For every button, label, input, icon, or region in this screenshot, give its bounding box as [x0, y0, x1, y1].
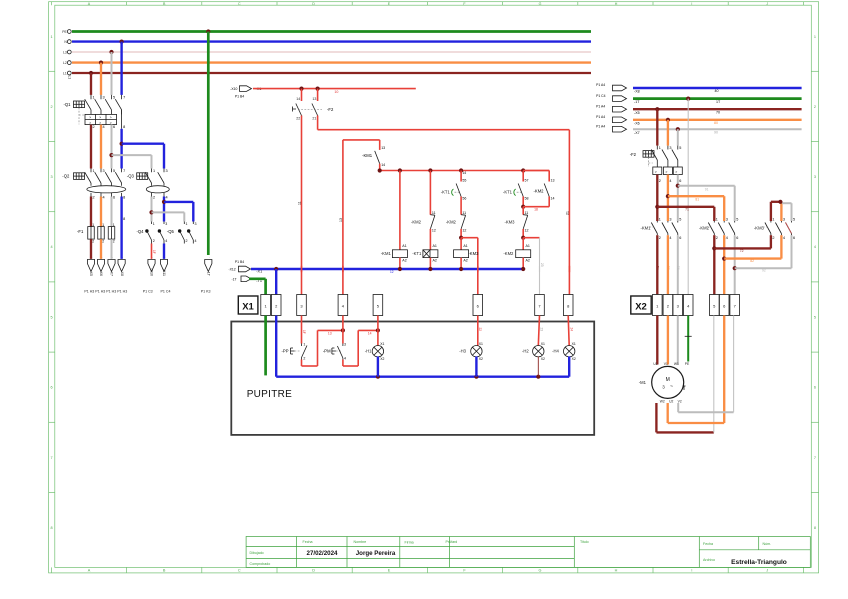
- svg-text:-X8: -X8: [634, 90, 640, 94]
- svg-text:P1 C4: P1 C4: [596, 94, 606, 98]
- svg-text:·: ·: [152, 256, 153, 260]
- svg-text:2: 2: [716, 236, 718, 240]
- svg-text:4: 4: [166, 196, 168, 200]
- svg-text:-KM3: -KM3: [504, 220, 515, 225]
- svg-text:G: G: [539, 569, 542, 573]
- svg-text:L3: L3: [63, 50, 67, 54]
- svg-text:55: 55: [462, 178, 466, 182]
- svg-text:1: 1: [814, 35, 816, 39]
- svg-text:14: 14: [551, 197, 555, 201]
- svg-text:X2: X2: [380, 357, 384, 361]
- svg-text:6: 6: [679, 179, 681, 183]
- svg-text:23: 23: [540, 263, 544, 267]
- svg-text:P1 A4: P1 A4: [596, 83, 605, 87]
- svg-text:-F1: -F1: [77, 229, 84, 234]
- svg-text:-X6: -X6: [634, 121, 640, 125]
- svg-text:>: >: [99, 116, 101, 120]
- svg-text:-H4: -H4: [552, 349, 559, 354]
- svg-text:-F2: -F2: [327, 107, 334, 112]
- svg-text:-Q4: -Q4: [137, 229, 145, 234]
- svg-text:A2: A2: [463, 258, 467, 262]
- svg-text:B: B: [163, 569, 166, 573]
- svg-text:Firma: Firma: [405, 541, 414, 545]
- svg-text:2: 2: [153, 196, 155, 200]
- svg-text:7: 7: [51, 456, 53, 460]
- svg-text:-KM2: -KM2: [534, 188, 545, 193]
- svg-text:-KT1: -KT1: [503, 189, 513, 194]
- svg-text:D: D: [312, 569, 315, 573]
- svg-text:1F: 1F: [152, 250, 156, 254]
- svg-text:-1T: -1T: [634, 100, 640, 104]
- svg-text:6: 6: [793, 236, 795, 240]
- svg-text:1: 1: [153, 222, 155, 226]
- svg-text:1: 1: [113, 223, 115, 227]
- svg-text:72: 72: [740, 249, 744, 253]
- svg-text:2: 2: [93, 196, 95, 200]
- svg-text:7: 7: [123, 169, 125, 173]
- svg-text:80: 80: [714, 121, 718, 125]
- svg-text:14: 14: [381, 163, 385, 167]
- svg-text:A: A: [88, 569, 91, 573]
- svg-text:Jorge Pereira: Jorge Pereira: [356, 550, 396, 557]
- svg-text:11: 11: [525, 211, 529, 215]
- svg-text:1: 1: [51, 35, 53, 39]
- svg-text:21: 21: [566, 211, 570, 215]
- svg-text:P1 A4: P1 A4: [596, 124, 605, 128]
- svg-text:2: 2: [113, 240, 115, 244]
- svg-text:56: 56: [462, 197, 466, 201]
- svg-text:X1: X1: [380, 342, 384, 346]
- svg-text:P1 A4: P1 A4: [596, 115, 605, 119]
- svg-text:Comprobado: Comprobado: [250, 562, 271, 566]
- svg-text:6: 6: [736, 236, 738, 240]
- svg-text:23: 23: [540, 328, 544, 332]
- svg-text:-KM3: -KM3: [754, 226, 765, 231]
- svg-text:2: 2: [186, 239, 188, 243]
- svg-text:D: D: [312, 2, 315, 6]
- svg-text:V1: V1: [664, 362, 668, 366]
- svg-text:1: 1: [659, 146, 661, 150]
- svg-text:V2: V2: [678, 399, 682, 403]
- svg-text:>: >: [110, 121, 112, 125]
- svg-text:P1 B4: P1 B4: [235, 94, 244, 98]
- svg-text:2: 2: [51, 105, 53, 109]
- svg-text:X1: X1: [572, 342, 576, 346]
- svg-text:>: >: [110, 116, 112, 120]
- svg-text:8: 8: [814, 526, 816, 530]
- svg-text:2: 2: [659, 179, 661, 183]
- svg-text:-X5: -X5: [634, 111, 640, 115]
- svg-text:13: 13: [312, 97, 316, 101]
- svg-text:A2: A2: [402, 258, 406, 262]
- svg-text:-KM1: -KM1: [640, 226, 651, 231]
- svg-text:-KM1: -KM1: [362, 153, 373, 158]
- svg-text:Nombre: Nombre: [354, 540, 367, 544]
- svg-text:I: I: [691, 569, 692, 573]
- svg-text:>: >: [665, 170, 667, 174]
- svg-text:5: 5: [736, 217, 738, 221]
- svg-text:11: 11: [298, 201, 302, 205]
- svg-text:1F: 1F: [302, 330, 306, 334]
- svg-text:·: ·: [102, 256, 103, 260]
- svg-text:3: 3: [669, 217, 671, 221]
- svg-text:3: 3: [814, 175, 816, 179]
- svg-text:4: 4: [726, 236, 728, 240]
- svg-text:·: ·: [209, 256, 210, 260]
- svg-text:5: 5: [51, 315, 53, 319]
- svg-text:L1: L1: [68, 76, 72, 80]
- svg-text:-H2: -H2: [522, 349, 529, 354]
- svg-text:14: 14: [462, 171, 466, 175]
- svg-text:-Q2: -Q2: [62, 174, 70, 179]
- svg-text:Dibujado: Dibujado: [250, 551, 264, 555]
- svg-text:3: 3: [783, 217, 785, 221]
- svg-text:2: 2: [92, 240, 94, 244]
- svg-text:J: J: [766, 569, 768, 573]
- svg-text:A2: A2: [433, 258, 437, 262]
- svg-text:14: 14: [368, 332, 372, 336]
- svg-text:P1 H3 P1 H3 P1 H3 P1 H3: P1 H3 P1 H3 P1 H3 P1 H3: [84, 289, 127, 293]
- svg-text:13: 13: [339, 218, 343, 222]
- svg-text:1: 1: [92, 223, 94, 227]
- svg-text:3: 3: [726, 217, 728, 221]
- svg-text:13: 13: [328, 332, 332, 336]
- svg-text:91: 91: [676, 266, 680, 270]
- svg-text:G: G: [539, 2, 542, 6]
- svg-text:C: C: [238, 2, 241, 6]
- svg-text:E: E: [388, 569, 391, 573]
- svg-text:Núm.: Núm.: [763, 542, 772, 546]
- svg-text:X1: X1: [242, 302, 254, 313]
- svg-text:L1: L1: [63, 71, 67, 75]
- svg-text:X2: X2: [541, 357, 545, 361]
- svg-text:-X11: -X11: [162, 269, 166, 276]
- svg-text:12: 12: [390, 270, 394, 274]
- svg-text:1: 1: [153, 169, 155, 173]
- svg-text:-PM: -PM: [323, 348, 331, 353]
- svg-text:2: 2: [153, 239, 155, 243]
- svg-text:7: 7: [814, 456, 816, 460]
- svg-text:Archivo: Archivo: [703, 558, 715, 562]
- svg-text:4: 4: [103, 196, 105, 200]
- svg-text:40: 40: [715, 89, 719, 93]
- svg-text:4: 4: [783, 236, 785, 240]
- svg-text:6: 6: [113, 196, 115, 200]
- svg-text:6: 6: [51, 386, 53, 390]
- svg-text:J: J: [766, 2, 768, 6]
- svg-text:3: 3: [103, 169, 105, 173]
- svg-text:2: 2: [772, 236, 774, 240]
- svg-text:13: 13: [551, 178, 555, 182]
- svg-text:92: 92: [762, 269, 766, 273]
- svg-text:W2: W2: [660, 399, 665, 403]
- svg-text:P1 A4: P1 A4: [596, 104, 605, 108]
- svg-text:1: 1: [303, 342, 305, 346]
- svg-text:4: 4: [165, 239, 167, 243]
- svg-text:P1 C4: P1 C4: [161, 289, 171, 293]
- svg-text:U1: U1: [653, 362, 657, 366]
- svg-text:-X10: -X10: [230, 87, 237, 91]
- svg-text:L2: L2: [63, 61, 67, 65]
- svg-text:3: 3: [165, 222, 167, 226]
- svg-text:Fecha: Fecha: [703, 542, 713, 546]
- svg-text:5: 5: [679, 146, 681, 150]
- svg-text:5: 5: [679, 217, 681, 221]
- svg-text:U2: U2: [669, 399, 673, 403]
- svg-text:3: 3: [103, 96, 105, 100]
- svg-text:24: 24: [570, 328, 574, 332]
- svg-text:4: 4: [103, 125, 105, 129]
- svg-text:81: 81: [666, 266, 670, 270]
- svg-text:·: ·: [165, 256, 166, 260]
- svg-text:3: 3: [195, 222, 197, 226]
- svg-text:11: 11: [432, 211, 436, 215]
- svg-text:14: 14: [296, 97, 300, 101]
- svg-text:8: 8: [123, 217, 125, 221]
- svg-text:P1 K3: P1 K3: [201, 289, 211, 293]
- svg-text:-1T: -1T: [207, 271, 211, 277]
- svg-text:X1: X1: [541, 342, 545, 346]
- svg-text:8: 8: [123, 196, 125, 200]
- svg-text:P1 B4: P1 B4: [235, 260, 244, 264]
- svg-text:11: 11: [462, 211, 466, 215]
- svg-text:~: ~: [670, 384, 673, 390]
- svg-text:A2: A2: [526, 258, 530, 262]
- svg-text:7: 7: [123, 96, 125, 100]
- svg-text:-KM1: -KM1: [381, 251, 392, 256]
- svg-text:2: 2: [93, 125, 95, 129]
- svg-text:1: 1: [186, 222, 188, 226]
- svg-text:A1: A1: [463, 244, 467, 248]
- svg-text:8: 8: [51, 526, 53, 530]
- svg-text:M: M: [666, 377, 670, 383]
- svg-text:-1T: -1T: [232, 277, 237, 281]
- svg-text:Prüfard: Prüfard: [446, 540, 458, 544]
- svg-text:·: ·: [92, 256, 93, 260]
- svg-text:4: 4: [814, 245, 816, 249]
- svg-text:-KT1: -KT1: [441, 189, 451, 194]
- svg-text:-X7: -X7: [634, 131, 640, 135]
- svg-text:2: 2: [303, 356, 305, 360]
- svg-text:H: H: [615, 2, 618, 6]
- svg-text:70: 70: [716, 110, 720, 114]
- svg-text:PUPITRE: PUPITRE: [247, 389, 292, 400]
- svg-text:C: C: [238, 569, 241, 573]
- svg-text:4: 4: [669, 179, 671, 183]
- svg-text:·: ·: [122, 256, 123, 260]
- svg-text:5: 5: [113, 96, 115, 100]
- svg-text:58: 58: [525, 197, 529, 201]
- svg-text:P1 C3: P1 C3: [143, 289, 153, 293]
- svg-text:1: 1: [772, 217, 774, 221]
- svg-text:90: 90: [714, 131, 718, 135]
- svg-text:X1: X1: [479, 342, 483, 346]
- svg-text:>: >: [675, 170, 677, 174]
- svg-text:>: >: [99, 121, 101, 125]
- svg-text:X2: X2: [635, 302, 647, 313]
- svg-text:12: 12: [462, 229, 466, 233]
- svg-text:·: ·: [112, 256, 113, 260]
- svg-text:4: 4: [51, 245, 53, 249]
- svg-text:2: 2: [102, 240, 104, 244]
- svg-text:13: 13: [381, 146, 385, 150]
- svg-text:4: 4: [195, 239, 197, 243]
- svg-text:-H1: -H1: [365, 349, 372, 354]
- svg-text:Estrella-Triangulo: Estrella-Triangulo: [731, 559, 787, 566]
- svg-text:81: 81: [695, 198, 699, 202]
- svg-text:-X5: -X5: [89, 270, 93, 276]
- svg-text:1: 1: [93, 169, 95, 173]
- svg-text:A1: A1: [433, 244, 437, 248]
- svg-text:91: 91: [705, 187, 709, 191]
- svg-text:3: 3: [51, 175, 53, 179]
- svg-text:-Q3: -Q3: [127, 174, 135, 179]
- svg-text:10: 10: [334, 90, 338, 94]
- svg-text:PE: PE: [62, 30, 67, 34]
- svg-text:-KM3: -KM3: [468, 251, 479, 256]
- svg-text:21: 21: [312, 117, 316, 121]
- svg-text:22: 22: [478, 328, 482, 332]
- svg-text:-X12: -X12: [229, 268, 236, 272]
- svg-text:3: 3: [166, 169, 168, 173]
- svg-text:-X10: -X10: [150, 268, 154, 276]
- svg-text:2: 2: [814, 105, 816, 109]
- svg-text:-KT1: -KT1: [412, 251, 422, 256]
- svg-text:-Q5: -Q5: [167, 229, 175, 234]
- svg-text:2: 2: [659, 236, 661, 240]
- svg-text:-X6: -X6: [99, 270, 103, 276]
- svg-text:-KM2: -KM2: [411, 220, 422, 225]
- svg-text:-KM2: -KM2: [446, 220, 457, 225]
- svg-text:12: 12: [432, 229, 436, 233]
- svg-text:12: 12: [525, 229, 529, 233]
- svg-text:Fecha: Fecha: [303, 540, 313, 544]
- svg-text:-X8: -X8: [120, 270, 124, 276]
- svg-text:-KM2: -KM2: [503, 251, 514, 256]
- svg-text:3: 3: [344, 342, 346, 346]
- svg-text:-PP: -PP: [282, 348, 289, 353]
- svg-text:5: 5: [113, 169, 115, 173]
- svg-text:71: 71: [685, 207, 689, 211]
- svg-text:X2: X2: [479, 357, 483, 361]
- svg-text:X2: X2: [572, 357, 576, 361]
- svg-text:22: 22: [296, 117, 300, 121]
- svg-text:8: 8: [123, 125, 125, 129]
- svg-text:-F2: -F2: [630, 152, 637, 157]
- svg-text:I: I: [691, 2, 692, 6]
- svg-text:A1: A1: [526, 244, 530, 248]
- svg-text:-M1: -M1: [639, 380, 647, 385]
- svg-text:1: 1: [93, 96, 95, 100]
- svg-text:4: 4: [344, 356, 346, 360]
- svg-text:>: >: [89, 121, 91, 125]
- svg-text:H: H: [615, 569, 618, 573]
- svg-text:A1: A1: [402, 244, 406, 248]
- svg-text:6: 6: [814, 386, 816, 390]
- svg-text:>: >: [89, 116, 91, 120]
- svg-text:>: >: [655, 170, 657, 174]
- svg-text:6: 6: [679, 236, 681, 240]
- svg-text:W1: W1: [674, 362, 679, 366]
- svg-text:5: 5: [814, 315, 816, 319]
- svg-text:71: 71: [656, 266, 660, 270]
- svg-text:27/02/2024: 27/02/2024: [307, 550, 339, 557]
- svg-text:1: 1: [659, 217, 661, 221]
- svg-text:82: 82: [750, 259, 754, 263]
- svg-text:3: 3: [669, 146, 671, 150]
- svg-text:-KM2: -KM2: [699, 226, 710, 231]
- svg-text:1: 1: [716, 217, 718, 221]
- svg-text:-X7: -X7: [110, 270, 114, 276]
- svg-text:-H3: -H3: [459, 349, 466, 354]
- svg-text:1: 1: [102, 223, 104, 227]
- svg-text:-Q1: -Q1: [64, 102, 72, 107]
- svg-text:4: 4: [669, 236, 671, 240]
- svg-text:18: 18: [534, 208, 538, 212]
- svg-text:Titulo: Titulo: [580, 540, 589, 544]
- svg-text:5: 5: [793, 217, 795, 221]
- svg-text:6: 6: [113, 125, 115, 129]
- svg-text:57: 57: [525, 178, 529, 182]
